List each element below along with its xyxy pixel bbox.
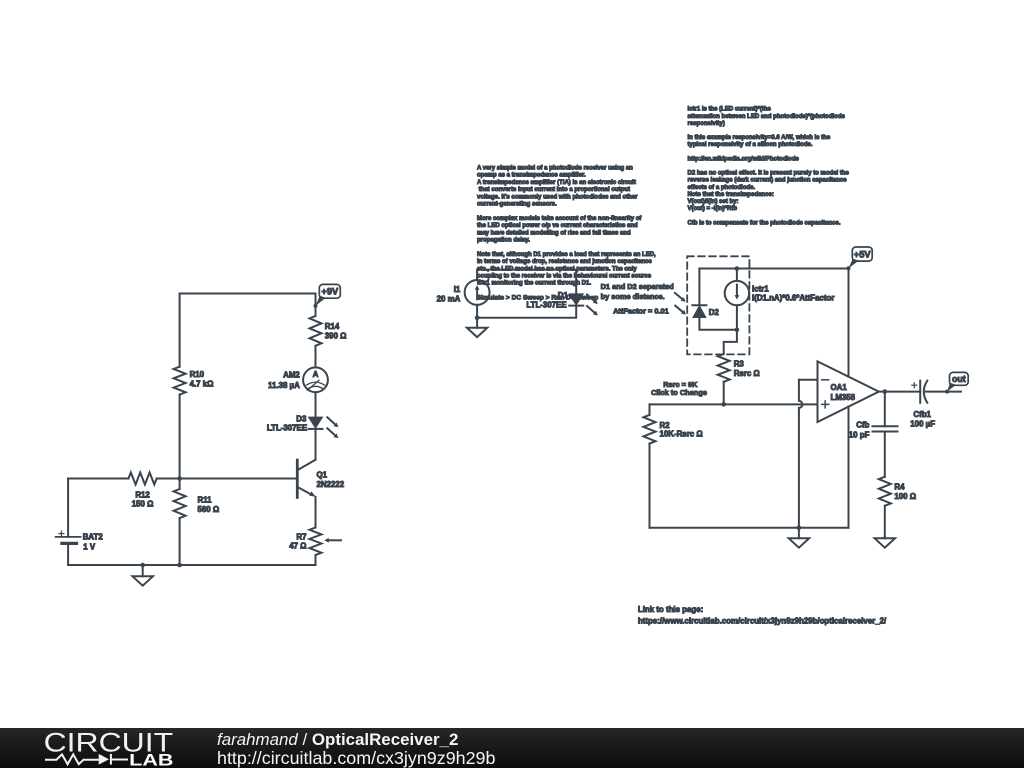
svg-text:LM358: LM358 <box>831 393 856 402</box>
power flag +9V <box>314 284 341 308</box>
svg-text:Cfb: Cfb <box>856 421 869 430</box>
svg-text:D2 has no optical effect. It i: D2 has no optical effect. It is present … <box>688 171 850 177</box>
svg-text:typical responsivity of a sili: typical responsivity of a silicon photod… <box>688 142 813 148</box>
svg-text:D3: D3 <box>296 415 307 424</box>
svg-text:Q1: Q1 <box>317 470 328 479</box>
svg-text:may have detailed modelling of: may have detailed modelling of rise and … <box>477 230 631 236</box>
wire main horizontal <box>650 403 818 405</box>
wire top rail right <box>699 268 848 270</box>
svg-text:coupling to the receiver is vi: coupling to the receiver is via the beha… <box>477 274 652 280</box>
wire op-amp V- pin <box>848 407 850 528</box>
ground left <box>133 565 153 586</box>
svg-text:150 Ω: 150 Ω <box>132 499 154 508</box>
svg-text:Ictr1 monitoring the current t: Ictr1 monitoring the current through D1. <box>477 281 591 287</box>
resistor R10 <box>174 367 214 395</box>
battery BAT2 <box>56 531 104 551</box>
wire D1 bottom loop <box>477 305 576 318</box>
svg-text:D1: D1 <box>558 291 569 300</box>
wire R11 to bottom rail <box>179 518 181 565</box>
wire R10 column <box>179 294 181 367</box>
note text simulate <box>477 295 599 302</box>
svg-text:the LED optical power o/p vs c: the LED optical power o/p vs current cha… <box>477 223 638 229</box>
svg-text:D2: D2 <box>709 308 720 317</box>
svg-text:AttFactor = 0.01: AttFactor = 0.01 <box>613 307 669 316</box>
svg-text:Ictr1: Ictr1 <box>752 284 769 293</box>
svg-text:propagation delay.: propagation delay. <box>477 238 530 244</box>
svg-text:opamp as a transimpedance ampl: opamp as a transimpedance amplifier. <box>477 173 586 179</box>
wire bottom rail left <box>68 564 315 566</box>
wire left column <box>67 479 69 537</box>
wire jog to R3 <box>724 330 737 354</box>
svg-text:A: A <box>313 370 319 379</box>
svg-text:R7: R7 <box>296 532 307 541</box>
svg-text:I1: I1 <box>454 285 461 294</box>
svg-text:Note that, although D1 provide: Note that, although D1 provides a load t… <box>477 252 656 258</box>
wire battery to bottom rail <box>67 543 69 565</box>
LED D3 <box>267 415 339 439</box>
node R11 bottom <box>177 563 182 568</box>
svg-text:attenuation between LED and ph: attenuation between LED and photodiode)*… <box>688 114 846 120</box>
current source Ictr1 <box>725 281 835 305</box>
wire Ictr1 bottom <box>736 305 738 330</box>
node I1 bottom <box>475 315 480 320</box>
svg-text:Cfb is to compensate for the p: Cfb is to compensate for the photodiode … <box>688 220 841 226</box>
svg-text:More complex models take accou: More complex models take account of the … <box>477 216 642 222</box>
svg-text:A transimpedance amplifier (TI: A transimpedance amplifier (TIA) is an e… <box>477 180 636 186</box>
wire Ictr1 top <box>736 269 738 281</box>
svg-text:R12: R12 <box>135 490 150 499</box>
svg-text:390 Ω: 390 Ω <box>325 332 347 341</box>
svg-text:10K-Rsrc Ω: 10K-Rsrc Ω <box>660 429 703 438</box>
ground R4 <box>875 537 895 548</box>
capacitor Cfb <box>849 421 898 440</box>
resistor R11 <box>174 489 220 518</box>
wire R10 to base node <box>179 395 181 489</box>
svg-text:+5V: +5V <box>854 249 872 259</box>
svg-text:R3: R3 <box>734 360 745 369</box>
svg-text:In this example responsivity=0: In this example responsivity=0.6 A/W, wh… <box>688 135 831 141</box>
svg-text:Click to Change: Click to Change <box>651 388 707 397</box>
svg-text:100 Ω: 100 Ω <box>894 492 916 501</box>
svg-text:LAB: LAB <box>129 751 173 768</box>
svg-text:2N2222: 2N2222 <box>317 480 345 489</box>
svg-text:I(D1.nA)*0.6*AttFactor: I(D1.nA)*0.6*AttFactor <box>752 294 834 303</box>
photodiode D2 <box>675 293 720 318</box>
svg-text:Ictr1 is the (LED current)*(th: Ictr1 is the (LED current)*(the <box>688 107 772 113</box>
svg-text:100 µF: 100 µF <box>910 420 935 429</box>
svg-text:http://en.wikipedia.org/wiki/P: http://en.wikipedia.org/wiki/Photodiode <box>688 156 800 162</box>
svg-text:Rsrc Ω: Rsrc Ω <box>734 369 760 378</box>
svg-text:560 Ω: 560 Ω <box>198 505 220 514</box>
note text block right <box>688 107 850 227</box>
logo diode symbol <box>99 754 109 765</box>
svg-text:by some distance.: by some distance. <box>601 292 665 301</box>
wire top rail left <box>180 293 316 295</box>
note text AttFactor <box>613 307 669 316</box>
svg-text:R4: R4 <box>894 483 905 492</box>
svg-text:LTL-307EE: LTL-307EE <box>267 423 307 432</box>
svg-text:D1 and D2 separated: D1 and D2 separated <box>601 282 675 291</box>
ground I1 <box>467 318 487 337</box>
svg-text:R14: R14 <box>325 322 340 331</box>
wire R3 to main node <box>723 382 725 405</box>
svg-text:10 pF: 10 pF <box>849 431 870 440</box>
svg-text:20 mA: 20 mA <box>437 294 461 303</box>
node R3 bottom <box>721 402 726 407</box>
svg-text:4.7 kΩ: 4.7 kΩ <box>190 380 214 389</box>
wire Q1 emitter to R7 <box>315 497 317 528</box>
node Ictr1 bottom <box>735 328 740 333</box>
wire base left segment <box>68 478 128 480</box>
node output <box>883 389 888 394</box>
svg-text:V(out)/I(in) set by:: V(out)/I(in) set by: <box>688 199 739 205</box>
wire +9V column <box>315 294 317 316</box>
note text block left <box>477 166 656 287</box>
resistor R12 <box>129 473 157 509</box>
svg-text:R10: R10 <box>190 370 205 379</box>
resistor R2 <box>644 415 703 444</box>
note text D1 D2 separated <box>601 282 675 301</box>
note text link <box>638 605 887 625</box>
wire base right segment <box>157 478 297 480</box>
svg-text:Note that the transimpedance:: Note that the transimpedance: <box>688 192 774 198</box>
svg-text:out: out <box>952 374 966 384</box>
wire D2 anode <box>698 269 700 306</box>
wire D3 to Q1 <box>315 429 317 460</box>
svg-text:+9V: +9V <box>321 287 339 297</box>
LED D1 <box>526 291 597 315</box>
svg-text:BAT2: BAT2 <box>83 533 104 542</box>
wire D2 cathode <box>699 318 737 330</box>
ammeter AM2 <box>268 367 328 392</box>
svg-text:voltage. It's commonly used wi: voltage. It's commonly used with photodi… <box>477 194 638 200</box>
svg-text:A very simple model of a photo: A very simple model of a photodiode rece… <box>477 166 633 172</box>
note text Rsrc <box>651 380 707 397</box>
svg-text:47 Ω: 47 Ω <box>289 542 306 551</box>
svg-text:Link to this page:: Link to this page: <box>638 605 703 614</box>
current source I1 <box>437 280 490 305</box>
ground right <box>789 528 809 548</box>
node ground junction right <box>797 525 802 530</box>
wire R7 to bottom rail <box>315 555 317 565</box>
rheostat R7 <box>289 528 341 556</box>
svg-text:effects of a photodiode.: effects of a photodiode. <box>688 185 756 191</box>
svg-text:11.38 µA: 11.38 µA <box>268 381 300 390</box>
wire I1 top loop <box>477 270 576 294</box>
wire AM2 to D3 <box>315 392 317 417</box>
transistor Q1 <box>297 460 344 498</box>
net flag out <box>945 372 968 393</box>
svg-text:in terms of voltage drop, resi: in terms of voltage drop, resistance and… <box>477 259 652 265</box>
logo resistor symbol <box>45 754 99 764</box>
wire Cfb to R4 <box>884 432 886 477</box>
svg-text:AM2: AM2 <box>283 371 300 380</box>
wire R4 to ground <box>884 506 886 537</box>
wire inverting input <box>799 379 818 381</box>
wire Cfb1 to out <box>926 391 961 393</box>
node ground junction <box>140 563 145 568</box>
wire op-amp V+ pin <box>848 269 850 377</box>
svg-text:R11: R11 <box>198 496 213 505</box>
capacitor Cfb1 <box>910 381 935 429</box>
resistor R14 <box>310 316 347 346</box>
svg-text:Cfb1: Cfb1 <box>913 410 931 419</box>
svg-text:that converts input current in: that converts input current into a propo… <box>477 187 630 193</box>
wire inverting column with hop <box>799 380 803 528</box>
footer title text <box>217 730 495 768</box>
svg-text:LTL-307EE: LTL-307EE <box>526 301 566 310</box>
footer bar <box>0 728 1024 768</box>
resistor R4 <box>879 477 916 506</box>
svg-text:V(out) = -I(in)*Rfb: V(out) = -I(in)*Rfb <box>688 206 738 212</box>
wire R2 to bottom rail <box>649 444 651 528</box>
wire output <box>879 391 920 393</box>
svg-text:https://www.circuitlab.com/cir: https://www.circuitlab.com/circuit/x3jyn… <box>638 616 887 625</box>
node base junction <box>177 476 182 481</box>
svg-text:1 V: 1 V <box>83 542 96 551</box>
wire bottom rail right <box>650 527 849 529</box>
wire R14 to AM2 <box>315 346 317 368</box>
op-amp OA1 <box>818 361 879 422</box>
dashed optical coupling box <box>687 256 749 354</box>
svg-text:reverse leakage (dark current): reverse leakage (dark current) and junct… <box>688 178 848 184</box>
svg-text:OA1: OA1 <box>831 383 848 392</box>
wire feedback down <box>884 392 886 427</box>
power flag +5V <box>847 247 873 270</box>
resistor R3 <box>718 354 760 382</box>
wire R2 top lead <box>649 404 651 415</box>
svg-text:current-generating sensors.: current-generating sensors. <box>477 202 557 208</box>
CircuitLab logo <box>40 728 190 768</box>
node Ictr1 top <box>735 266 740 271</box>
svg-text:responsivity): responsivity) <box>688 121 725 127</box>
